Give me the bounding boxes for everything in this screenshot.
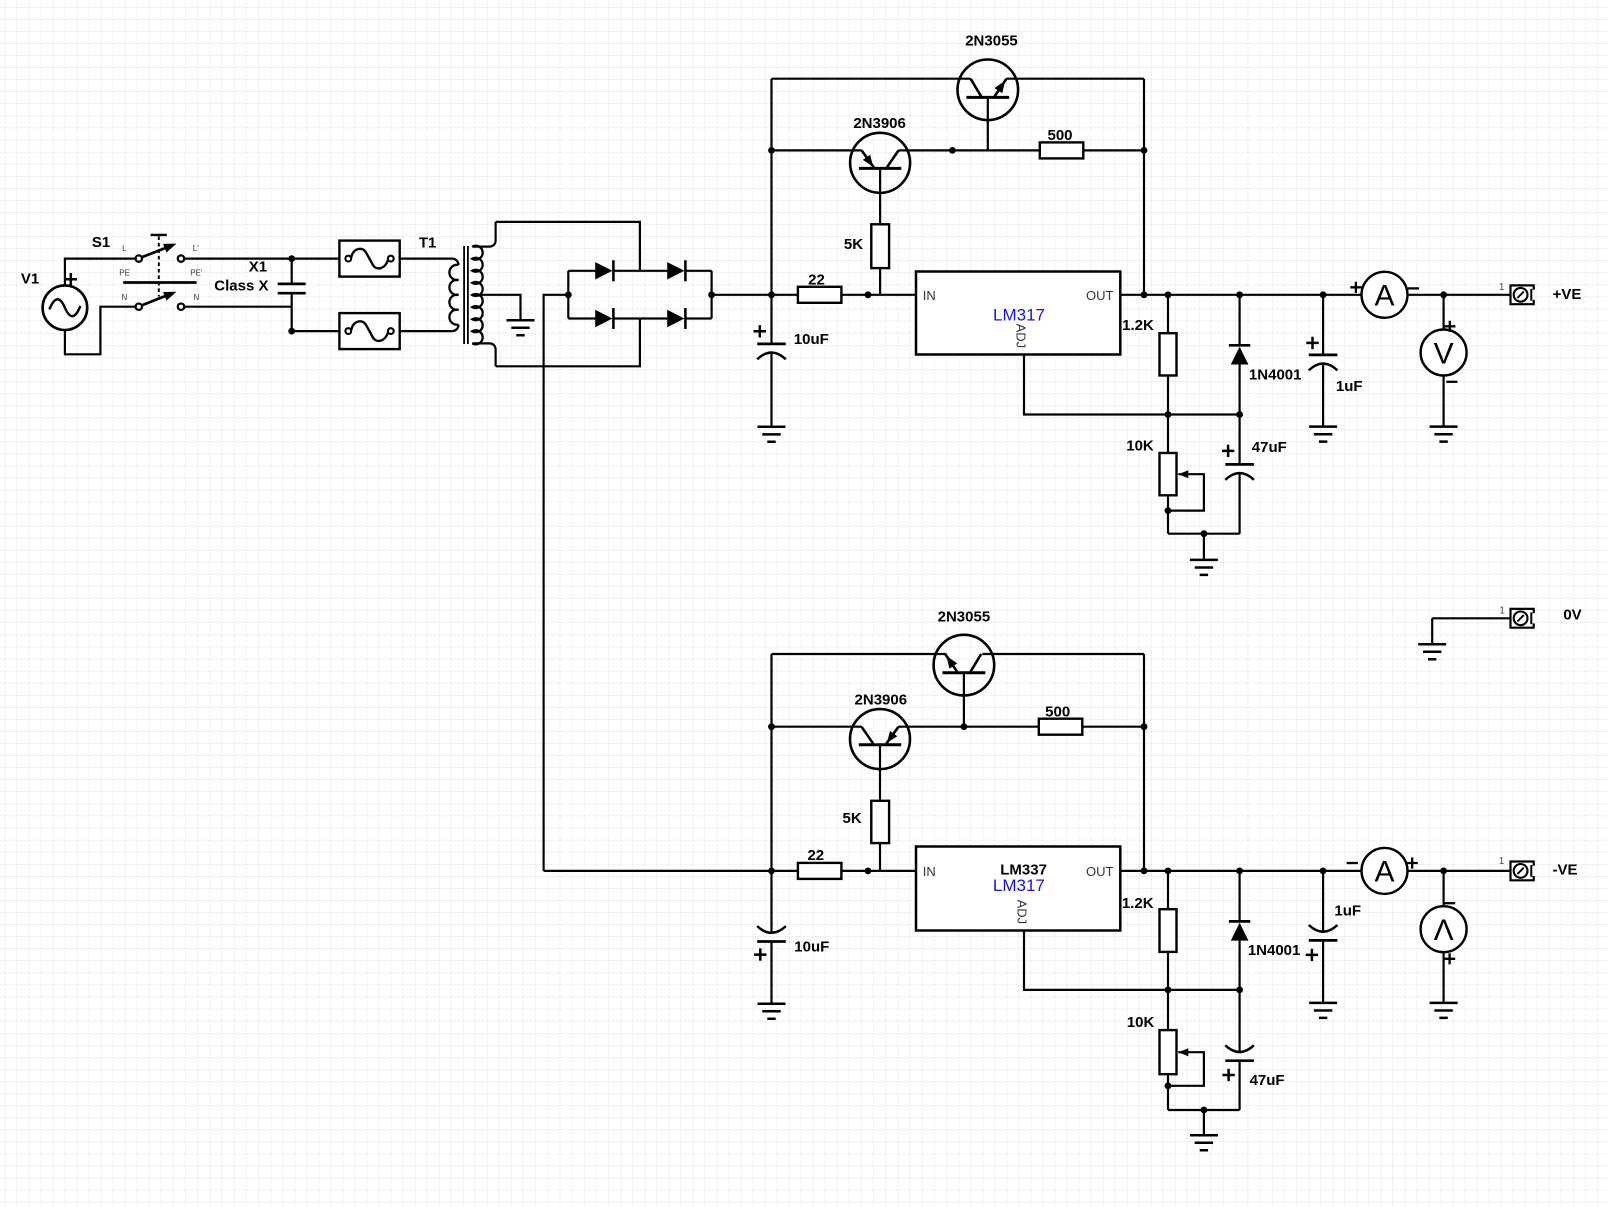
svg-text:N: N [122, 293, 128, 302]
svg-text:47uF: 47uF [1250, 1072, 1285, 1089]
svg-text:1uF: 1uF [1334, 902, 1361, 919]
svg-text:OUT: OUT [1086, 288, 1114, 303]
svg-text:ADJ: ADJ [1014, 900, 1029, 925]
svg-text:0V: 0V [1563, 606, 1581, 623]
svg-text:V: V [1434, 338, 1454, 371]
svg-text:22: 22 [808, 271, 825, 288]
svg-text:+VE: +VE [1553, 286, 1582, 303]
svg-text:ADJ: ADJ [1014, 324, 1029, 349]
svg-text:10K: 10K [1126, 437, 1154, 454]
svg-text:500: 500 [1047, 127, 1072, 144]
svg-text:5K: 5K [844, 236, 863, 253]
svg-text:A: A [1374, 855, 1394, 888]
svg-text:Λ: Λ [1434, 914, 1454, 947]
svg-text:V1: V1 [21, 271, 39, 288]
svg-text:1.2K: 1.2K [1122, 317, 1154, 334]
svg-text:PE': PE' [190, 268, 203, 277]
svg-text:2N3906: 2N3906 [853, 115, 906, 132]
svg-text:S1: S1 [92, 234, 110, 251]
svg-text:500: 500 [1045, 703, 1070, 720]
svg-text:IN: IN [923, 864, 936, 879]
svg-text:N: N [194, 293, 200, 302]
svg-text:T1: T1 [419, 235, 437, 252]
svg-text:1: 1 [1499, 282, 1505, 293]
svg-text:10uF: 10uF [794, 331, 829, 348]
svg-text:LM317: LM317 [993, 305, 1045, 324]
svg-text:-VE: -VE [1552, 862, 1577, 879]
svg-text:2N3906: 2N3906 [855, 692, 908, 709]
svg-text:2N3055: 2N3055 [938, 609, 991, 626]
svg-text:22: 22 [807, 847, 824, 864]
svg-text:47uF: 47uF [1252, 439, 1287, 456]
svg-text:OUT: OUT [1086, 864, 1114, 879]
svg-text:1: 1 [1499, 606, 1505, 617]
svg-text:A: A [1374, 279, 1394, 312]
svg-text:1: 1 [1499, 856, 1505, 867]
svg-text:LM317: LM317 [993, 876, 1045, 895]
svg-text:L: L [122, 244, 127, 253]
svg-text:1uF: 1uF [1336, 378, 1363, 395]
svg-text:2N3055: 2N3055 [965, 33, 1018, 50]
svg-text:10uF: 10uF [794, 938, 829, 955]
svg-text:1N4001: 1N4001 [1249, 366, 1302, 383]
svg-text:5K: 5K [843, 810, 862, 827]
svg-text:X1: X1 [249, 259, 267, 276]
svg-text:L': L' [193, 244, 199, 253]
svg-text:PE: PE [119, 268, 130, 277]
svg-text:1.2K: 1.2K [1122, 895, 1154, 912]
svg-text:IN: IN [923, 288, 936, 303]
svg-text:Class X: Class X [214, 278, 268, 295]
svg-text:10K: 10K [1127, 1014, 1155, 1031]
svg-text:1N4001: 1N4001 [1248, 942, 1301, 959]
